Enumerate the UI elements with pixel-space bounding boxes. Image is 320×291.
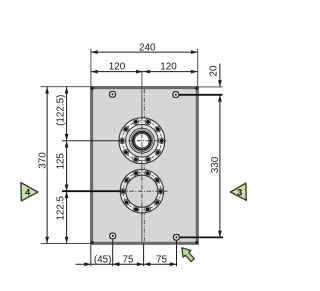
wire bottom ext from plate corner [90, 245, 92, 266]
dimension (45) [76, 254, 177, 266]
wire center extension below plate [143, 243, 145, 266]
svg-text:4: 4 [25, 188, 31, 199]
node plate vertical centerline (dash-dot) [143, 89, 145, 242]
dimension (122.5) [55, 87, 68, 244]
dimension 120 left [91, 62, 198, 74]
screw hole top-right [173, 92, 179, 98]
dimension 120 right [144, 62, 198, 74]
svg-text:20: 20 [208, 65, 219, 76]
wire extension line top-right [197, 49, 199, 86]
svg-text:(45): (45) [94, 254, 112, 265]
wire extension line circle1 center [62, 140, 120, 142]
flange bore circle bottom [120, 170, 164, 213]
svg-text:240: 240 [139, 42, 156, 53]
dimension 75 left [113, 254, 143, 266]
dimension 20 [208, 64, 222, 87]
screw hole bottom-left [110, 233, 116, 239]
svg-text:122.5: 122.5 [55, 195, 66, 220]
svg-text:120: 120 [109, 62, 126, 73]
wire vertical extension line through hole centers [141, 72, 143, 243]
wire extension line left top [41, 86, 92, 88]
wire bottom ext from hole left [112, 239, 114, 266]
svg-text:120: 120 [160, 62, 177, 73]
marker triangle 4 [21, 183, 38, 201]
wire leader from top-right hole [179, 94, 223, 96]
mounting plate [92, 88, 198, 244]
wire extension line top-left [90, 49, 92, 86]
dimension 122.5 [55, 192, 68, 244]
svg-text:75: 75 [156, 254, 167, 265]
svg-text:75: 75 [123, 254, 134, 265]
node plate corner accents [90, 86, 94, 90]
dimension 330 [210, 95, 222, 237]
marker triangle 3 [230, 183, 246, 200]
wire bottom ext from hole right [176, 241, 178, 266]
svg-text:125: 125 [55, 153, 66, 170]
flange bore circle top [119, 118, 165, 164]
svg-text:370: 370 [38, 152, 49, 169]
node crosshair bottom circle [121, 190, 168, 192]
node crosshair top circle [120, 140, 167, 142]
dimension 370 [38, 87, 49, 244]
marker cursor arrow bottom-right [182, 248, 195, 262]
wire extension line left bottom [41, 243, 92, 245]
dimension 75 right [144, 254, 177, 266]
screw hole bottom-right [173, 234, 179, 240]
svg-text:(122.5): (122.5) [55, 95, 66, 126]
wire extension line circle2 center (thick) [62, 190, 121, 192]
svg-text:3: 3 [237, 188, 242, 199]
dimension 125 [55, 141, 68, 191]
screw hole top-left [110, 91, 116, 97]
wire leader from bottom-right hole [180, 236, 223, 238]
wire extension top-right corner horizontal [198, 86, 223, 88]
svg-text:330: 330 [210, 156, 221, 173]
dimension 240 [91, 42, 198, 54]
